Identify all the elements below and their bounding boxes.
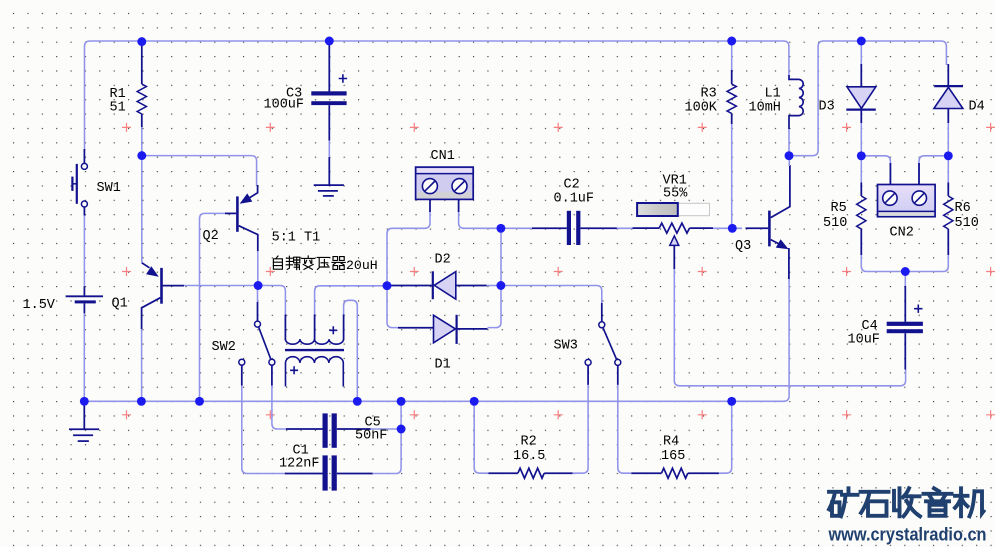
wire SW3 throw2 to R4 bbox=[618, 385, 632, 474]
wire node Q3C elbow to top rail 2 bbox=[789, 41, 946, 156]
node GND bus-battery bbox=[80, 397, 89, 406]
svg-text:122nF: 122nF bbox=[279, 457, 320, 472]
svg-text:CN1: CN1 bbox=[431, 149, 455, 164]
node bus-R2 bbox=[470, 397, 479, 406]
svg-text:100K: 100K bbox=[685, 101, 718, 116]
node VCC-C3 bbox=[325, 37, 334, 46]
wire R4 right riser to bus bbox=[719, 401, 732, 473]
wire SW2 pole riser bbox=[257, 286, 259, 303]
node L1-Q3 collector bbox=[785, 151, 794, 160]
svg-text:0.1uF: 0.1uF bbox=[554, 192, 595, 207]
svg-text:16.5: 16.5 bbox=[513, 449, 545, 464]
resistor R4 bbox=[632, 435, 719, 479]
node C5-C1 bbox=[397, 425, 406, 434]
diode D3 bbox=[819, 64, 876, 123]
node R5R6-C4 bbox=[901, 267, 910, 276]
ground main bbox=[69, 403, 99, 441]
potentiometer VR1 bbox=[633, 174, 714, 270]
svg-text:SW3: SW3 bbox=[554, 339, 578, 354]
node VCC-R1 bbox=[137, 37, 146, 46]
wire L1 bottom to node Q3C bbox=[788, 128, 790, 156]
svg-text:D2: D2 bbox=[435, 253, 451, 268]
wire top rail VCC bbox=[85, 41, 789, 151]
wire node C5 riser to bus bbox=[400, 401, 402, 429]
wire D-loop left vertical to D1 bbox=[387, 286, 399, 328]
wire CN1 pin1 elbow to D-loop bbox=[387, 211, 430, 286]
resistor R3 bbox=[685, 70, 737, 124]
battery BT 1.5V bbox=[23, 286, 104, 313]
svg-text:www.crystalradio.cn: www.crystalradio.cn bbox=[828, 524, 987, 545]
svg-text:50nF: 50nF bbox=[355, 429, 387, 444]
wire R5 R6 bottoms to C4 rail bbox=[861, 254, 948, 272]
connector CN1 bbox=[416, 149, 474, 212]
svg-text:R5: R5 bbox=[831, 201, 847, 216]
watermark logo bbox=[828, 488, 987, 544]
wire VR1 wiper to C4 bottom row bbox=[674, 268, 905, 386]
connector CN2 bbox=[878, 163, 936, 241]
node bus-C5 bbox=[397, 397, 406, 406]
wire T1 primary right to bottom bus bbox=[344, 300, 358, 401]
resistor R5 bbox=[823, 183, 866, 256]
switch SW3 bbox=[554, 303, 621, 385]
node D3-R5 bbox=[857, 151, 866, 160]
wire D-loop right vertical bbox=[488, 228, 502, 327]
wire bus riser to R2 left bbox=[474, 401, 489, 473]
node VCC-R3 bbox=[727, 37, 736, 46]
resistor R6 bbox=[944, 183, 979, 256]
diode D4 bbox=[934, 64, 985, 123]
svg-text:Q3: Q3 bbox=[735, 239, 751, 254]
svg-text:D1: D1 bbox=[435, 358, 451, 373]
capacitor C3 bbox=[264, 45, 348, 141]
wire base rail to T1 primary left bbox=[258, 286, 285, 316]
resistor R1 bbox=[110, 45, 147, 127]
wire D3 column bbox=[860, 45, 862, 183]
wire SW2 throw2 to C5 bbox=[272, 385, 287, 430]
capacitor C5 bbox=[286, 413, 387, 447]
svg-text:R4: R4 bbox=[663, 435, 679, 450]
capacitor C1 bbox=[279, 444, 373, 491]
wire R1 bottom to node bbox=[141, 126, 143, 156]
svg-text:1.5V: 1.5V bbox=[23, 298, 56, 313]
wire C5 right to node bbox=[370, 428, 402, 430]
svg-text:5:1 T1: 5:1 T1 bbox=[272, 231, 321, 246]
capacitor C2 bbox=[532, 178, 617, 246]
svg-text:10mH: 10mH bbox=[749, 101, 781, 116]
node Q2C-Q1B bbox=[254, 281, 263, 290]
transistor Q3 bbox=[735, 156, 790, 279]
node bus-Q1C bbox=[137, 397, 146, 406]
wire bottom ground bus bbox=[84, 278, 789, 401]
svg-text:20uH: 20uH bbox=[346, 258, 378, 273]
svg-text:165: 165 bbox=[661, 449, 685, 464]
wire D4 R6 column bbox=[947, 108, 949, 183]
wire C3 to ground bbox=[328, 141, 330, 158]
wire mid rail to Q2 emitter bbox=[142, 156, 257, 186]
svg-text:510: 510 bbox=[823, 216, 847, 231]
wire node C4 stem bbox=[904, 272, 906, 288]
wire T1 center tap to node D2 bbox=[315, 286, 387, 315]
resistor R2 bbox=[489, 435, 573, 479]
transformer T1 bbox=[272, 231, 344, 387]
wire R3 column bbox=[731, 45, 733, 228]
node bus-T1 bbox=[353, 397, 362, 406]
svg-text:D4: D4 bbox=[969, 100, 985, 115]
diode D2 bbox=[388, 253, 487, 300]
node D2-SW3 bbox=[496, 281, 505, 290]
wire node D4 elbow to CN2 pin2 bbox=[919, 156, 948, 185]
node VCC-D3 bbox=[857, 37, 866, 46]
svg-text:D3: D3 bbox=[819, 100, 835, 115]
grid reference crosses bbox=[122, 123, 995, 419]
svg-text:L1: L1 bbox=[765, 87, 781, 102]
wire VR1 right to node Q3 bbox=[713, 227, 743, 229]
svg-text:CN2: CN2 bbox=[890, 226, 914, 241]
svg-text:100uF: 100uF bbox=[264, 98, 305, 113]
svg-text:SW2: SW2 bbox=[212, 340, 236, 355]
node D4-R6 bbox=[944, 151, 953, 160]
svg-text:510: 510 bbox=[955, 216, 979, 231]
wire base rail Q1-Q2 bbox=[184, 285, 259, 287]
wire SW1 to battery bbox=[83, 216, 85, 287]
wire SW3 throw1 to R2 bbox=[572, 385, 588, 474]
wire Q2 base riser bbox=[200, 213, 226, 401]
svg-text:10uF: 10uF bbox=[848, 333, 880, 348]
wire base rail to SW3 pole bbox=[501, 286, 602, 304]
capacitor C4 bbox=[848, 286, 923, 370]
wire SW2 throw1 to C1 bbox=[242, 385, 286, 474]
node bus-R4 bbox=[727, 397, 736, 406]
wire D2 right lead joins bbox=[486, 285, 501, 287]
wire node D3 elbow to CN2 pin1 bbox=[861, 156, 890, 185]
svg-text:SW1: SW1 bbox=[97, 181, 121, 196]
wire C1 right riser to node C5 bbox=[372, 429, 401, 474]
transistor Q1 bbox=[112, 263, 185, 329]
wire CN1 pin2 elbow to node C2 bbox=[459, 211, 501, 228]
node VR1-Q3 base bbox=[728, 224, 737, 233]
svg-text:Q1: Q1 bbox=[112, 297, 128, 312]
wire Q1 collector to bus bbox=[141, 328, 143, 401]
svg-text:R3: R3 bbox=[701, 87, 717, 102]
svg-text:51: 51 bbox=[110, 101, 126, 116]
svg-text:Q2: Q2 bbox=[203, 229, 219, 244]
svg-text:55%: 55% bbox=[663, 187, 688, 202]
label T1 chinese 自耦变压器20uH bbox=[273, 256, 377, 273]
ground below C3 bbox=[314, 157, 344, 196]
node bus-Q2B bbox=[195, 397, 204, 406]
wire node C2 to capacitor C2 bbox=[501, 227, 533, 229]
diode D1 bbox=[398, 315, 488, 373]
inductor L1 bbox=[749, 75, 804, 129]
node R1-Q1Q2 bbox=[137, 151, 146, 160]
transistor Q2 bbox=[203, 185, 258, 251]
svg-text:R2: R2 bbox=[521, 435, 537, 450]
switch SW2 bbox=[212, 302, 275, 386]
svg-text:C2: C2 bbox=[564, 178, 580, 193]
svg-text:R6: R6 bbox=[955, 201, 971, 216]
wire C2 gap segment bbox=[617, 227, 634, 229]
node T1 tap-D2 bbox=[383, 281, 392, 290]
node CN1-C2 bbox=[496, 224, 505, 233]
wire Q2 collector to base rail bbox=[257, 250, 259, 286]
switch SW1 bbox=[72, 149, 120, 216]
wire node A down to Q1 emitter bbox=[141, 156, 143, 263]
wire battery to bus bbox=[83, 313, 85, 401]
